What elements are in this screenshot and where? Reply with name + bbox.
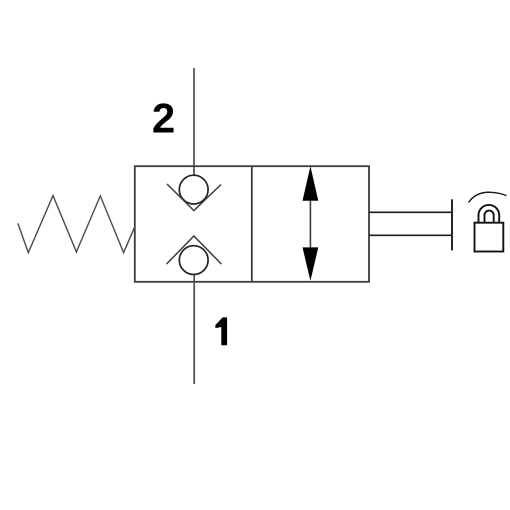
padlock shackle	[479, 205, 500, 223]
rotation arc over lock	[469, 192, 507, 202]
label port 1	[215, 317, 227, 345]
check valve CV1 circle	[179, 175, 208, 204]
check valve CV1 seat	[167, 184, 221, 211]
spring	[18, 196, 135, 253]
check valve CV2 circle	[179, 246, 208, 275]
padlock body	[475, 223, 504, 252]
double arrow shaft	[309, 199, 311, 249]
arrowhead down	[303, 247, 319, 280]
push rod end bar	[451, 199, 453, 250]
check valve CV2 seat	[167, 236, 222, 264]
push rod upper line	[369, 211, 452, 213]
push rod lower line	[369, 234, 452, 236]
wire port 1 vertical line	[193, 275, 195, 384]
valve body divider line	[251, 166, 253, 282]
svg-text:2: 2	[152, 94, 175, 141]
arrowhead up	[303, 166, 319, 201]
wire port 2 vertical line	[193, 68, 195, 176]
valve body outer box	[135, 166, 369, 282]
